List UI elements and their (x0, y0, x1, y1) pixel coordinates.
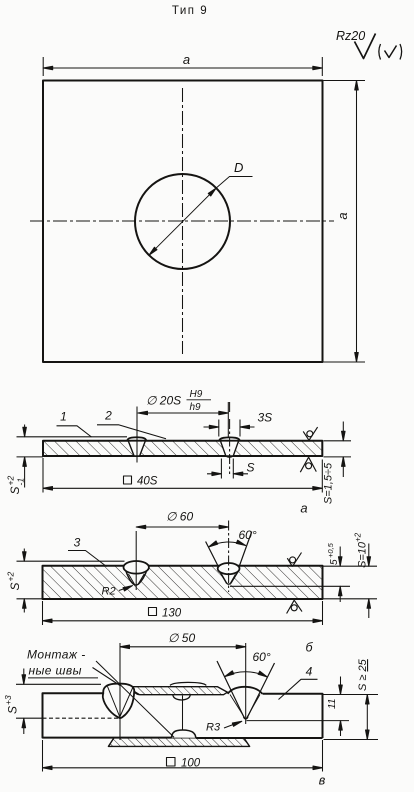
weld W2 root bump (226, 456, 233, 457)
svg-text:R2: R2 (102, 586, 116, 598)
roughness symbol bottom b (287, 600, 302, 613)
svg-text:S=10: S=10 (357, 541, 369, 568)
joint centerline (182, 696, 184, 731)
dimension a (right) (324, 81, 366, 363)
dimension 11 (right) (324, 694, 379, 696)
vertical centerline (182, 88, 184, 354)
weld B2 inner cone lines (222, 574, 236, 584)
extension line top left (weld level) (17, 436, 128, 438)
svg-text:+2: +2 (6, 572, 16, 582)
svg-text:a: a (183, 52, 190, 67)
small weld dome under strip (173, 695, 191, 700)
angle 60 deg arc v (225, 672, 268, 677)
roughness symbol top a (303, 427, 317, 440)
svg-text:D: D (234, 160, 243, 175)
svg-text:130: 130 (162, 608, 182, 620)
svg-text:S=1,5÷5: S=1,5÷5 (323, 462, 335, 504)
svg-text:∅ 60: ∅ 60 (166, 510, 193, 524)
weld W2 fusion lines (220, 441, 238, 456)
hole circle D (135, 174, 230, 269)
roughness symbol bottom a (300, 457, 316, 472)
weld B1 funnel fill (125, 565, 147, 585)
plate cross-section a (43, 441, 322, 456)
svg-text:S: S (8, 582, 22, 590)
dimension S=10+2 (far right) (324, 566, 378, 599)
svg-text:5: 5 (329, 559, 340, 565)
svg-text:100: 100 (181, 758, 201, 770)
weld B2 centerline (228, 521, 230, 593)
svg-text:3S: 3S (258, 411, 273, 425)
dimension d50 (120, 646, 246, 648)
weld W2 centerline (229, 402, 231, 474)
svg-text:60°: 60° (239, 528, 257, 542)
right weld groove V lines (217, 661, 275, 719)
svg-text:ные швы: ные швы (29, 664, 82, 678)
svg-text:в: в (319, 774, 326, 788)
bottom backing strip (108, 738, 249, 747)
square plate outline (43, 81, 323, 363)
svg-text:Тип 9: Тип 9 (172, 5, 208, 17)
weld B2 funnel fill (219, 568, 240, 584)
svg-text:+3: +3 (3, 695, 13, 705)
ext line left (weld level) (17, 560, 125, 562)
angle 60 deg arc b (209, 542, 246, 547)
dimension a (top) (43, 57, 322, 76)
weld B1 inner cone lines (128, 574, 144, 585)
weld W2 nugget fill (220, 442, 238, 455)
right field weld v: cap (228, 687, 263, 694)
dimension 3S (219, 420, 240, 437)
weld W1 nugget fill (128, 442, 145, 455)
horizontal centerline (30, 220, 334, 222)
dimension sq40S (43, 458, 322, 493)
svg-text:2: 2 (104, 409, 112, 423)
weld W2 cap (219, 437, 240, 440)
svg-text:S: S (247, 461, 255, 475)
right weld inner lines (230, 695, 260, 719)
svg-text:h9: h9 (190, 402, 202, 413)
weld B2 funnel sides (219, 571, 239, 584)
upper cover strip (121, 687, 228, 695)
dimension 5+0,5 (right) (230, 585, 350, 587)
weld B1 centerline / ext (135, 531, 137, 590)
svg-text:S: S (8, 486, 22, 494)
svg-text:б: б (305, 641, 313, 655)
ext line bottom left (17, 598, 43, 600)
svg-text:S: S (6, 706, 20, 714)
right weld centerline (d50 ext) (245, 643, 247, 724)
dimension S=1,5..5 (right) (324, 441, 352, 457)
dimension S+3 (left) (16, 683, 101, 685)
roughness check symbol (355, 34, 376, 59)
right plate v (196, 694, 323, 738)
diameter D arrow line (149, 177, 253, 256)
dimension S>=25 (far right) (324, 739, 379, 741)
svg-text:-1: -1 (16, 478, 26, 486)
right weld root arc (244, 717, 249, 719)
svg-text:a: a (335, 212, 350, 219)
svg-text:60°: 60° (253, 650, 271, 664)
left plate v (43, 693, 172, 737)
roughness symbol top b (287, 553, 301, 567)
weld B2 (right) cap ellipse (218, 563, 240, 574)
left weld centerline (d50 ext) (119, 643, 121, 740)
svg-text:а: а (300, 501, 307, 516)
bottom field weld dome (172, 730, 196, 738)
extension line bottom left (17, 456, 44, 458)
weld B1 funnel (125, 569, 147, 585)
weld W1 centerline (136, 407, 138, 437)
weld B1 (left) cap ellipse (124, 561, 149, 574)
dimension d60 (136, 526, 228, 528)
left field weld blob (103, 684, 134, 719)
dimension d20S H9/h9 (138, 412, 228, 414)
dimension S+2 (left) (23, 549, 25, 613)
svg-text:R3: R3 (206, 722, 221, 734)
svg-text:11: 11 (327, 699, 338, 709)
dimension S (root width) (221, 459, 233, 479)
plate cross-section b (43, 566, 323, 599)
bump on strip top (170, 682, 206, 685)
svg-text:S ≥ 25: S ≥ 25 (357, 658, 369, 691)
(v) symbol (379, 44, 381, 60)
svg-text:1: 1 (60, 410, 67, 424)
svg-text:+2: +2 (354, 532, 363, 542)
svg-text:Монтаж -: Монтаж - (27, 648, 86, 662)
svg-text:∅ 20S: ∅ 20S (146, 394, 181, 408)
dimension sq130 (43, 601, 323, 625)
weld B2 groove V lines (206, 532, 252, 568)
svg-text:4: 4 (306, 665, 313, 679)
weld W1 cap (127, 437, 147, 441)
left weld inner V lines (108, 687, 133, 718)
svg-text:+2: +2 (6, 476, 16, 486)
svg-text:40S: 40S (137, 476, 158, 488)
svg-text:∅ 50: ∅ 50 (168, 631, 195, 645)
leader lines from montazh label (93, 661, 175, 737)
weld B2 funnel root (226, 583, 231, 585)
dimension S+2-1 (left) (24, 425, 26, 488)
svg-text:+0,5: +0,5 (326, 542, 335, 558)
svg-text:H9: H9 (190, 389, 203, 400)
dimension sq100 (43, 740, 323, 772)
svg-text:3: 3 (74, 536, 81, 550)
svg-text:Rz20: Rz20 (336, 29, 365, 43)
weld W1 fusion lines (128, 441, 145, 456)
